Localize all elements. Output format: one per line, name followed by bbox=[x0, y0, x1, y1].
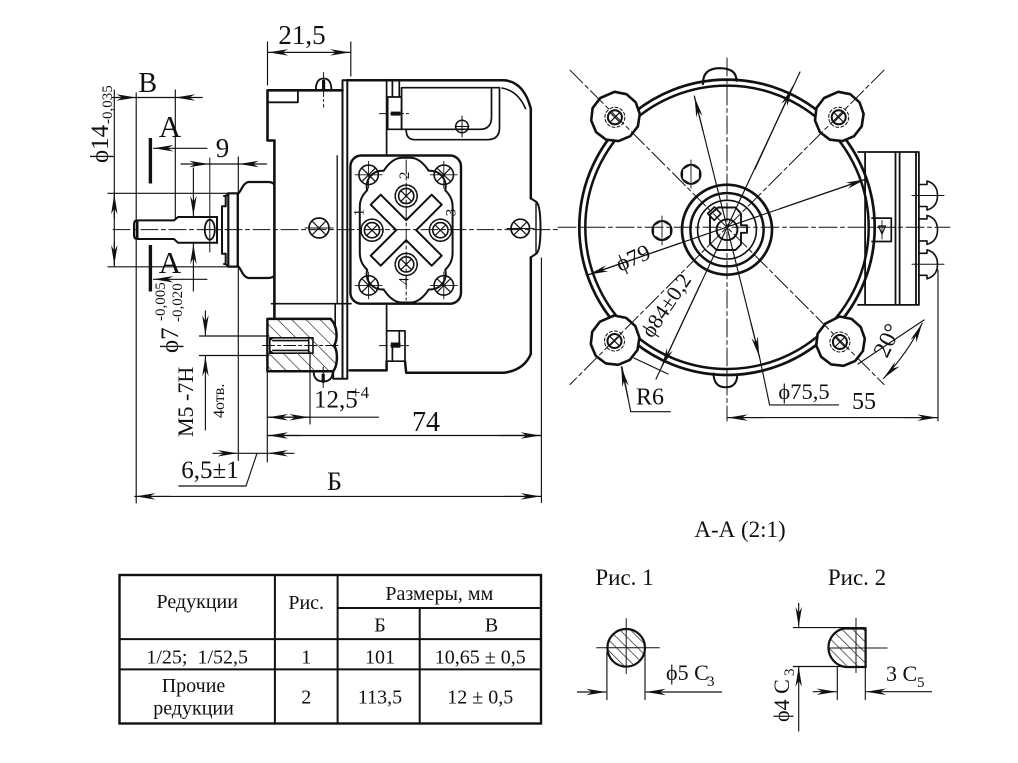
svg-text:редукции: редукции bbox=[153, 698, 234, 720]
corner screw TR bbox=[430, 161, 457, 188]
fig1 dim phi5 bbox=[577, 691, 606, 693]
svg-text:5: 5 bbox=[917, 675, 925, 691]
dim phi7 arrows bbox=[204, 311, 206, 335]
gearbox rear rim edge bbox=[336, 156, 338, 303]
table row lines bbox=[338, 607, 541, 609]
outer rim circles bbox=[579, 80, 874, 375]
dim B line bbox=[112, 97, 136, 99]
svg-text:М5 -7Н: М5 -7Н bbox=[173, 367, 198, 437]
svg-text:3 С: 3 С bbox=[886, 661, 917, 686]
gearbox / motor seam bbox=[333, 80, 347, 379]
dim 9 line bbox=[181, 163, 209, 165]
corner screw BL bbox=[355, 272, 382, 299]
svg-text:74: 74 bbox=[412, 407, 440, 438]
svg-text:6,5±1: 6,5±1 bbox=[181, 457, 238, 484]
gearbox top protrusion bbox=[268, 90, 343, 140]
lug hole white window bbox=[269, 339, 309, 353]
fig1 ext lines bbox=[606, 652, 608, 700]
ext line shaft tip (for B and Б) bbox=[135, 93, 137, 503]
hub shaft profile (octagon with key tabs) bbox=[710, 208, 747, 251]
mounting boss TL bbox=[591, 92, 640, 141]
X shaped recess bbox=[371, 195, 442, 266]
svg-text:R6: R6 bbox=[636, 385, 664, 411]
fig2 pin shape (hatched) bbox=[828, 629, 865, 668]
dim 21,5 ext lines bbox=[267, 42, 269, 85]
dim phi75,5 line and leader bbox=[694, 96, 838, 405]
dim phi7 ext lines bbox=[199, 335, 269, 337]
centerline horizontal bbox=[558, 226, 950, 228]
dim 21,5 line bbox=[268, 51, 351, 53]
corner screw BR bbox=[430, 272, 457, 299]
svg-text:2: 2 bbox=[301, 687, 311, 709]
svg-text:А: А bbox=[159, 245, 182, 280]
svg-text:ϕ7: ϕ7 bbox=[157, 327, 184, 353]
svg-text:Рис. 2: Рис. 2 bbox=[828, 565, 886, 590]
svg-text:1/25; 1/52,5: 1/25; 1/52,5 bbox=[146, 647, 248, 669]
fig1 centerlines bbox=[596, 647, 659, 649]
plate vertical centerline bbox=[405, 160, 407, 300]
label plate on motor top bbox=[402, 88, 500, 140]
connector plate outer bbox=[350, 156, 461, 304]
motor top-right inner arc bbox=[502, 88, 526, 109]
flange disc C (big) bbox=[228, 193, 237, 266]
left clamp tab on box bbox=[872, 218, 891, 241]
hex screw left bbox=[652, 216, 672, 245]
section plane A lower bar bbox=[149, 245, 152, 292]
top tab bbox=[703, 68, 737, 84]
fig2 dim 3 bbox=[813, 691, 837, 693]
dim 12,5 bbox=[267, 416, 378, 418]
flange disc A bbox=[217, 206, 226, 253]
svg-text:Редукции: Редукции bbox=[156, 591, 238, 613]
connector box at right bbox=[858, 152, 944, 305]
top clip latch bbox=[387, 80, 402, 155]
section plane A upper bar bbox=[149, 138, 152, 184]
diagonal centerline TL-BR bbox=[570, 70, 884, 384]
svg-text:ϕ14: ϕ14 bbox=[87, 124, 114, 163]
svg-text:4отв.: 4отв. bbox=[211, 384, 228, 418]
lug bottom dome screw bbox=[314, 371, 333, 381]
top dome screw bbox=[316, 79, 332, 91]
hub circles bbox=[682, 185, 772, 275]
label phi7 with tolerances bbox=[153, 282, 186, 353]
svg-text:4: 4 bbox=[397, 277, 413, 285]
table frame bbox=[120, 575, 542, 724]
diagonal centerline TR-BL bbox=[570, 70, 884, 384]
mounting boss BL bbox=[591, 316, 640, 365]
svg-text:-0,005: -0,005 bbox=[153, 282, 169, 321]
svg-text:10,65 ± 0,5: 10,65 ± 0,5 bbox=[435, 647, 526, 669]
svg-text:12 ± 0,5: 12 ± 0,5 bbox=[447, 687, 513, 709]
gearbox bottom hidden edge bbox=[272, 303, 352, 305]
svg-text:Б: Б bbox=[327, 467, 342, 496]
main horizontal centerline bbox=[113, 229, 558, 231]
svg-text:ϕ4 С: ϕ4 С bbox=[769, 679, 794, 722]
svg-text:-0,020: -0,020 bbox=[170, 283, 186, 322]
dim phi84 diagonal line bbox=[634, 72, 800, 379]
svg-text:В: В bbox=[138, 68, 157, 99]
svg-text:Размеры, мм: Размеры, мм bbox=[385, 583, 493, 605]
section A lower arrow bbox=[154, 278, 208, 280]
mounting boss TR bbox=[815, 92, 864, 141]
ext line left long (flange dia dim) bbox=[113, 90, 115, 266]
motor right screw bbox=[511, 219, 530, 238]
svg-text:55: 55 bbox=[852, 389, 876, 415]
gearbox centre screw bbox=[309, 218, 329, 238]
svg-text:ϕ5 С: ϕ5 С bbox=[666, 660, 709, 685]
corner screw TL bbox=[355, 161, 382, 188]
section A upper arrow bbox=[154, 147, 208, 149]
connector plate inner contour bbox=[360, 158, 453, 303]
dim 55 bbox=[727, 270, 938, 421]
svg-text:Рис. 1: Рис. 1 bbox=[595, 565, 653, 590]
label phi14 bbox=[87, 85, 116, 163]
svg-text:1: 1 bbox=[352, 209, 368, 217]
svg-text:Рис.: Рис. bbox=[288, 592, 324, 614]
right bearing bump bbox=[531, 198, 541, 257]
dim Б bbox=[135, 495, 542, 497]
svg-text:Прочие: Прочие bbox=[162, 675, 226, 697]
label phi4 C3 bbox=[769, 669, 798, 723]
terminal screw 2 (top) bbox=[395, 185, 417, 207]
svg-text:-0,035: -0,035 bbox=[100, 85, 116, 124]
long ext line x238 bbox=[237, 157, 239, 461]
label phi5 C3 bbox=[666, 660, 715, 690]
table texts bbox=[146, 583, 525, 720]
svg-text:3: 3 bbox=[444, 209, 460, 217]
20 degree arc bbox=[858, 320, 924, 378]
slot centerline (ext for dim 9) bbox=[209, 158, 211, 252]
svg-text:А: А bbox=[159, 109, 182, 144]
svg-text:А-А (2:1): А-А (2:1) bbox=[694, 517, 785, 542]
flange dia dim arrows bbox=[113, 194, 115, 218]
svg-text:2: 2 bbox=[397, 172, 413, 180]
bottom clip latch bbox=[387, 304, 405, 371]
ext lines for 12,5 / 74 / 6,5 bbox=[266, 371, 268, 462]
gearbox front face bbox=[273, 141, 276, 319]
dim 74 bbox=[267, 435, 541, 437]
svg-text:9: 9 bbox=[216, 133, 230, 163]
dim phi14 line bbox=[192, 168, 194, 216]
terminal screw 4 (bottom) bbox=[395, 253, 417, 275]
bottom tab bbox=[714, 374, 738, 388]
svg-text:101: 101 bbox=[365, 647, 395, 669]
label 3 C5 bbox=[886, 661, 925, 691]
plate screw bbox=[456, 120, 469, 133]
svg-text:21,5: 21,5 bbox=[278, 20, 325, 50]
dim 6,5±1 bbox=[213, 452, 238, 454]
ext line right x541 bbox=[540, 258, 542, 503]
ext line shaft step bbox=[174, 90, 176, 218]
svg-text:Б: Б bbox=[374, 615, 385, 637]
hex screw upper bbox=[681, 160, 701, 188]
terminal screws on box bbox=[919, 181, 938, 210]
svg-text:ϕ75,5: ϕ75,5 bbox=[778, 379, 829, 404]
centerline vertical bbox=[726, 58, 728, 421]
R6 leader bbox=[621, 367, 670, 412]
shaft keyway slot (oval) bbox=[205, 220, 215, 240]
flange disc B (chamfer ring) bbox=[224, 193, 228, 266]
protrusion window tab bbox=[268, 90, 298, 102]
fig2 vertical dim phi4 bbox=[793, 603, 865, 732]
dim phi79 diagonal line bbox=[587, 179, 866, 275]
output shaft bbox=[134, 217, 217, 243]
svg-text:1: 1 bbox=[301, 647, 311, 669]
gearbox front boss bbox=[238, 182, 275, 278]
terminal numbers bbox=[352, 172, 460, 285]
terminal screw 1 (left) bbox=[361, 219, 383, 241]
svg-text:В: В bbox=[485, 615, 498, 637]
table column lines bbox=[274, 575, 276, 724]
fig2 centerlines bbox=[829, 647, 887, 649]
mounting lug (hatched, in section) bbox=[267, 319, 337, 371]
mounting boss BR bbox=[816, 317, 865, 366]
svg-text:3: 3 bbox=[707, 674, 715, 690]
svg-text:+4: +4 bbox=[351, 383, 370, 402]
svg-text:113,5: 113,5 bbox=[358, 687, 402, 709]
fig1 pin circle (hatched) bbox=[607, 629, 645, 667]
svg-text:3: 3 bbox=[782, 669, 798, 677]
motor shell outline bbox=[347, 80, 531, 372]
flange dia ext lines bbox=[108, 192, 228, 194]
terminal screw 3 (right) bbox=[429, 219, 451, 241]
fig2 ext lines down bbox=[836, 667, 838, 700]
